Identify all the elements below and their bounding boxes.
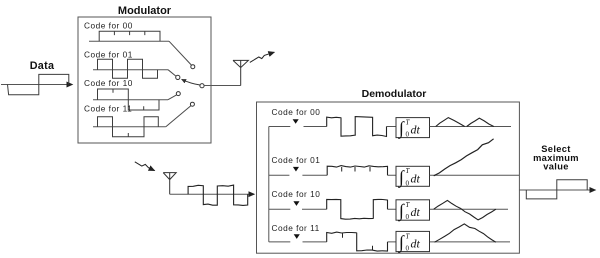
tx antenna [233, 60, 248, 85]
wire input bus vertical [268, 127, 270, 242]
row 1 product waveform [327, 117, 387, 137]
svg-text:Code for 10: Code for 10 [272, 189, 321, 199]
integrator U3 [396, 200, 430, 220]
wire diagonal code11 to switch [166, 106, 191, 127]
wire code 11 axis [93, 126, 166, 128]
wire row 3 [269, 208, 396, 210]
received noisy waveform [188, 185, 248, 205]
output data waveform [526, 180, 587, 199]
row 4 product waveform [327, 232, 388, 251]
row 4 integrator output (wide triangle) [435, 224, 496, 242]
integrator U2 [396, 166, 430, 186]
switch wiper arm selecting code 01 [182, 79, 201, 85]
wire modulator output to antenna [204, 85, 241, 87]
svg-text:0: 0 [406, 179, 410, 187]
svg-text:Code for 00: Code for 00 [84, 21, 133, 31]
switch contact 11 [190, 102, 194, 106]
svg-text:Code for 00: Code for 00 [272, 107, 321, 117]
wire row 3 output axis [430, 208, 508, 210]
svg-text:∫: ∫ [398, 167, 405, 188]
modulator block [78, 17, 211, 143]
wire row 1 [269, 126, 396, 128]
wire received signal axis with arrow into demodulator [170, 193, 255, 195]
data waveform [8, 74, 69, 94]
switch contact 00 [191, 65, 195, 69]
svg-text:dt: dt [411, 205, 421, 219]
svg-text:Demodulator: Demodulator [362, 88, 427, 100]
svg-text:0: 0 [406, 245, 410, 253]
wire diagonal code01 to switch [168, 70, 176, 76]
svg-text:dt: dt [411, 237, 421, 251]
rx radio wave arrow [135, 162, 155, 171]
code 00 waveform [99, 31, 160, 41]
row 3 integrator output (up then down triangle) [434, 200, 496, 220]
row 3 product waveform [327, 199, 388, 219]
row 2 integrator output (rising ramp, matched code) [434, 139, 494, 176]
svg-text:Code for 01: Code for 01 [84, 50, 133, 60]
row 2 product waveform [327, 166, 387, 176]
wire row 4 output axis [430, 241, 510, 243]
code injection arrow row 1 [293, 119, 299, 124]
wire code 01 axis [93, 69, 168, 71]
code injection arrow row 3 [293, 201, 299, 206]
svg-text:Modulator: Modulator [118, 5, 172, 17]
demodulator block [257, 102, 520, 253]
svg-text:∫: ∫ [398, 232, 405, 253]
wire code 10 axis [93, 99, 168, 101]
switch contact 10 [176, 92, 180, 96]
code 10 waveform [98, 89, 160, 110]
wire diagonal code10 to switch [168, 95, 177, 100]
wire code 00 axis [89, 40, 169, 42]
label select maximum value [533, 144, 579, 171]
svg-text:0: 0 [406, 213, 410, 221]
rx antenna [163, 173, 176, 195]
svg-text:dt: dt [411, 123, 421, 137]
svg-text:dt: dt [411, 171, 421, 185]
integrator U4 [396, 231, 430, 251]
wire row 1 output axis [430, 126, 511, 128]
wire row 2 [269, 174, 396, 176]
code injection arrow row 4 [294, 234, 300, 239]
wire diagonal code00 to switch [169, 41, 191, 65]
wire output axis with arrow [519, 189, 595, 191]
svg-text:Code for 11: Code for 11 [272, 223, 320, 233]
wire row 2 output axis [430, 174, 519, 176]
svg-text:Data: Data [30, 60, 55, 72]
switch common node [200, 84, 204, 88]
integrator U1 [396, 118, 430, 138]
code 11 waveform [98, 117, 159, 137]
tx radio wave arrow [250, 52, 274, 62]
wire data input axis with arrow [1, 84, 73, 86]
svg-text:Code for 11: Code for 11 [84, 104, 132, 114]
svg-text:value: value [543, 161, 569, 171]
svg-text:Code for 01: Code for 01 [272, 155, 321, 165]
wire row 4 [269, 241, 396, 243]
code injection arrow row 2 [293, 167, 299, 172]
code 01 waveform [98, 59, 158, 78]
svg-text:0: 0 [406, 131, 410, 139]
switch contact 01 [176, 75, 180, 79]
svg-text:∫: ∫ [398, 118, 405, 139]
svg-text:Code for 10: Code for 10 [84, 78, 133, 88]
row 1 integrator output (two small triangles) [436, 118, 465, 127]
svg-text:∫: ∫ [398, 201, 405, 222]
